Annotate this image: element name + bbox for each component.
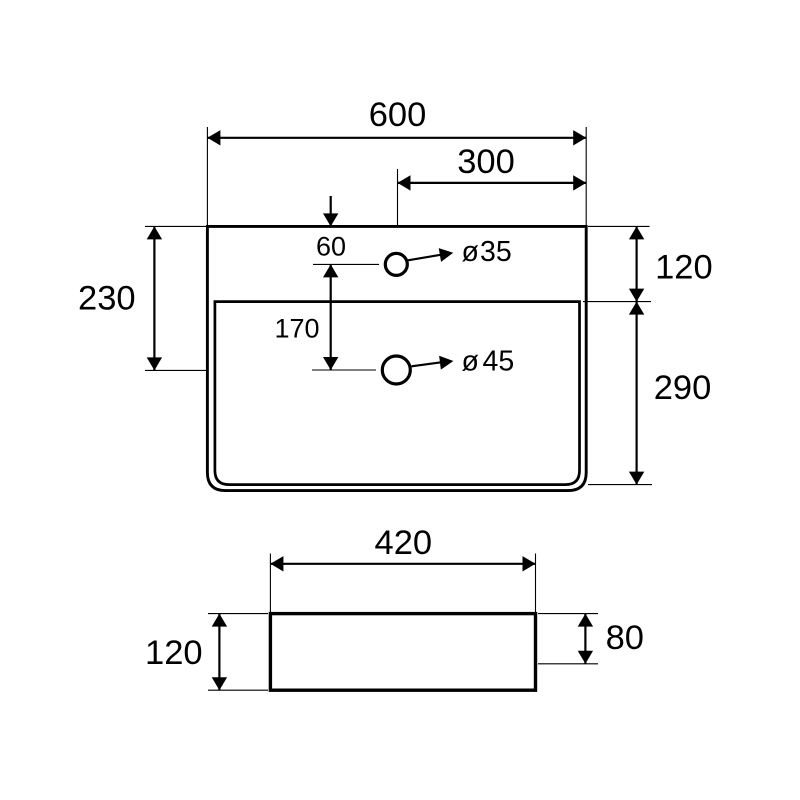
drain hole circle (diameter 45) [382, 356, 410, 384]
value label 420 [375, 524, 433, 562]
svg-text:120: 120 [655, 249, 713, 287]
extension lines dimensions 120 and 290 [583, 226, 652, 484]
svg-text:60: 60 [316, 231, 346, 261]
extension lines dimension 420 [270, 554, 535, 613]
svg-text:ø: ø [462, 346, 479, 378]
svg-text:35: 35 [480, 236, 512, 268]
value label 60 [316, 231, 346, 261]
centerline through drain hole [312, 369, 376, 371]
value label 170 [274, 314, 319, 344]
extension line dimension 300 [397, 169, 399, 225]
value label 600 [369, 96, 427, 134]
svg-text:290: 290 [654, 369, 712, 407]
value label diameter 35 [462, 236, 512, 268]
value label 80 [606, 619, 644, 657]
svg-text:230: 230 [78, 280, 136, 318]
svg-text:420: 420 [375, 524, 433, 562]
dimension line 230 [147, 226, 162, 370]
value label 300 [457, 143, 515, 181]
value label diameter 45 [462, 346, 515, 378]
svg-text:45: 45 [483, 346, 515, 378]
svg-text:120: 120 [145, 634, 203, 672]
faucet hole circle (diameter 35) [385, 253, 407, 275]
leader line drain hole [412, 356, 454, 370]
svg-text:600: 600 [369, 96, 427, 134]
dimension line 290 [629, 302, 644, 485]
dimension line 170 with 60 lower arrow [323, 264, 338, 370]
basin inner rim outline (top view) [215, 302, 580, 485]
svg-text:170: 170 [274, 314, 319, 344]
leader line faucet hole [408, 248, 453, 262]
value label 290 [654, 369, 712, 407]
svg-text:ø: ø [462, 236, 479, 268]
pedestal outline (side view) [270, 614, 535, 691]
dimension 60 outer arrow above rim [323, 196, 338, 226]
dimension line 120 (side view) [212, 614, 227, 691]
extension lines dimension 230 [145, 226, 206, 370]
dimension line 120 (right side) [629, 226, 644, 301]
extension lines dimension 120 (side view) [208, 614, 268, 691]
dimension line 600 [207, 130, 586, 145]
svg-text:80: 80 [606, 619, 644, 657]
basin outer outline (top view) [207, 226, 586, 490]
extension lines dimension 600 [207, 127, 586, 225]
dimension line 80 [578, 614, 593, 664]
dimension line 420 [270, 556, 535, 571]
value label 120 (side view) [145, 634, 203, 672]
centerline through faucet hole [313, 263, 379, 265]
extension lines dimension 80 [538, 614, 598, 664]
dimension line 300 [398, 175, 587, 190]
value label 120 (top view right) [655, 249, 713, 287]
value label 230 [78, 280, 136, 318]
svg-text:300: 300 [457, 143, 515, 181]
